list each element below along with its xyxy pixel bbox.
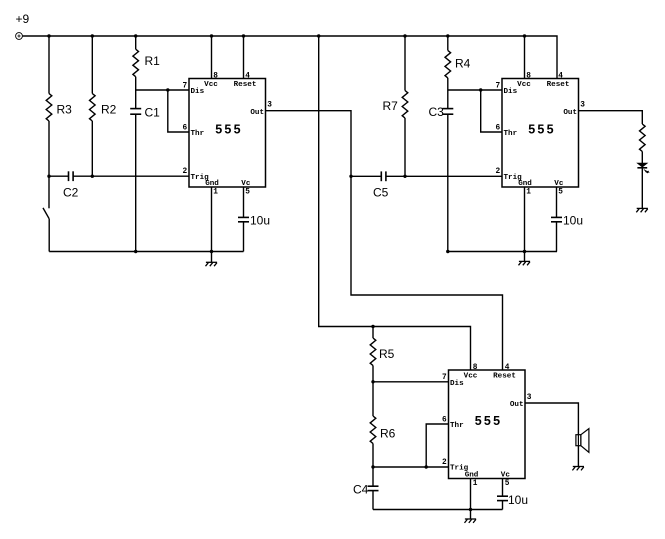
wire Gnd pin1 U3 — [470, 479, 472, 510]
wire ground rail 3 — [373, 509, 503, 511]
555 U3 pin 5 Vc label — [501, 472, 511, 489]
svg-text:8: 8 — [526, 73, 531, 81]
junction R3/C2 — [47, 175, 50, 178]
switch blade — [43, 208, 49, 219]
resistor R7 — [402, 36, 408, 176]
capacitor 10u U3 — [497, 496, 508, 509]
555 U1 pin 6 Thr label — [183, 124, 205, 138]
+9 supply label — [16, 12, 30, 26]
wire Reset pin4 U1 — [243, 36, 245, 79]
svg-text:Out: Out — [250, 109, 264, 117]
svg-text:C4: C4 — [353, 483, 369, 497]
555 U1 pin 2 Trig label — [183, 168, 210, 182]
capacitor C1 — [130, 90, 141, 252]
capacitor 10u U2 — [551, 217, 562, 251]
svg-text:Vcc: Vcc — [204, 81, 218, 89]
wire Trig U1 right — [73, 175, 189, 177]
svg-text:Reset: Reset — [234, 81, 257, 89]
svg-text:4: 4 — [505, 364, 510, 372]
label R6 — [380, 427, 396, 441]
wire Thr U2 jog — [481, 90, 502, 132]
svg-text:Gnd: Gnd — [465, 472, 479, 480]
capacitor C3 — [442, 90, 453, 252]
wire Dis U3 — [373, 381, 449, 383]
svg-text:4: 4 — [245, 73, 250, 81]
label R2 — [101, 103, 117, 117]
555 U1 pin 7 Dis label — [183, 82, 205, 96]
label R1 — [145, 54, 161, 68]
svg-text:Dis: Dis — [504, 88, 518, 96]
label C2 — [63, 186, 79, 200]
svg-text:R2: R2 — [101, 103, 117, 117]
resistor LED series — [640, 124, 646, 163]
wire rail to U3 Vcc — [319, 36, 471, 370]
switch lower wire — [48, 219, 50, 252]
label R7 — [383, 99, 399, 113]
555 U1 pin 4 Reset label — [234, 73, 257, 90]
svg-text:10u: 10u — [508, 493, 528, 507]
555 U2 555 part name — [528, 123, 555, 137]
555 U3 pin 7 Dis label — [442, 374, 464, 388]
junction rail/pin4 U1 — [242, 34, 245, 37]
svg-text:5: 5 — [245, 189, 250, 197]
555 U2 pin 3 Out label — [563, 102, 585, 117]
svg-text:1: 1 — [526, 189, 531, 197]
wire Trig U2 right — [386, 175, 502, 177]
wire ground rail 1 — [49, 251, 243, 253]
svg-text:Dis: Dis — [191, 88, 205, 96]
resistor R2 — [90, 36, 96, 176]
svg-text:Vcc: Vcc — [464, 373, 478, 381]
junction Thr jog U3 — [425, 465, 428, 468]
junction rail/U3 feed — [317, 34, 320, 37]
junction Gnd U2/rail2 — [523, 250, 526, 253]
svg-text:Reset: Reset — [547, 81, 570, 89]
junction R5/R6/Dis U3 — [371, 380, 374, 383]
junction rail/pin8 U2 — [523, 34, 526, 37]
junction rail/R2 — [91, 34, 94, 37]
junction rail/R1 — [134, 34, 137, 37]
junction C3/rail2 — [446, 250, 449, 253]
wire ground rail 2 — [448, 251, 557, 253]
svg-text:6: 6 — [442, 416, 447, 424]
svg-text:Dis: Dis — [450, 380, 464, 388]
svg-text:Reset: Reset — [493, 373, 516, 381]
svg-text:2: 2 — [183, 168, 188, 176]
junction OutU1/C5 — [349, 175, 352, 178]
svg-text:1: 1 — [213, 189, 218, 197]
svg-text:3: 3 — [267, 102, 272, 110]
wire Dis U2 — [448, 89, 502, 91]
555 U3 pin 6 Thr label — [442, 416, 464, 430]
svg-text:6: 6 — [496, 124, 501, 132]
svg-text:10u: 10u — [563, 214, 583, 228]
555 U1 pin 1 Gnd label — [205, 180, 219, 197]
junction R7/Trig U2 — [403, 175, 406, 178]
svg-text:C1: C1 — [145, 106, 161, 120]
svg-text:R5: R5 — [379, 347, 395, 361]
555 U2 pin 1 Gnd label — [518, 180, 532, 197]
wire Out U3 — [525, 403, 578, 435]
svg-text:C3: C3 — [429, 105, 445, 119]
label R5 — [379, 347, 395, 361]
svg-text:Out: Out — [510, 401, 524, 409]
svg-text:Out: Out — [563, 109, 577, 117]
ground symbol LED — [636, 208, 648, 212]
555 U2 pin 7 Dis label — [496, 82, 518, 96]
speaker LS1 — [576, 429, 589, 453]
label 10u U1 — [250, 214, 270, 228]
svg-text:8: 8 — [473, 364, 478, 372]
svg-text:2: 2 — [442, 459, 447, 467]
wire Thr U3 jog — [426, 424, 448, 467]
svg-text:Thr: Thr — [504, 130, 518, 138]
junction rail/R4 — [446, 34, 449, 37]
svg-text:Vc: Vc — [501, 472, 511, 480]
wire Trig U1 left — [49, 175, 69, 177]
555 U3 pin 3 Out label — [510, 394, 532, 409]
junction Gnd U1/rail1 — [210, 250, 213, 253]
svg-text:6: 6 — [183, 124, 188, 132]
wire Trig U2 left — [351, 175, 381, 177]
555 U2 pin 4 Reset label — [547, 73, 570, 90]
555 U2 pin 2 Trig label — [496, 168, 523, 182]
junction R5 top — [371, 325, 374, 328]
resistor R6 — [370, 382, 376, 467]
capacitor C4 — [368, 467, 379, 510]
resistor R4 — [445, 36, 451, 90]
svg-text:R4: R4 — [455, 57, 471, 71]
wire +9 rail — [23, 36, 557, 79]
ground symbol 2 — [519, 252, 531, 266]
wire Vc pin5 U1 — [243, 187, 245, 217]
resistor R1 — [133, 36, 139, 90]
junction rail/R3 — [47, 34, 50, 37]
supply terminal — [16, 33, 23, 40]
svg-text:Thr: Thr — [450, 422, 464, 430]
capacitor C2 — [69, 171, 74, 181]
wire Thr U1 jog — [168, 90, 189, 132]
label R3 — [57, 103, 73, 117]
junction Dis U2 jog — [479, 88, 482, 91]
svg-text:555: 555 — [215, 123, 242, 137]
555 U2 pin 6 Thr label — [496, 124, 518, 138]
svg-text:R7: R7 — [383, 99, 399, 113]
555 U1 box — [189, 79, 266, 188]
555 U3 555 part name — [475, 414, 502, 428]
LED D1 — [637, 163, 649, 173]
svg-text:C5: C5 — [373, 186, 389, 200]
ground symbol speaker — [572, 467, 584, 471]
wire Out U2 — [579, 111, 643, 124]
label C1 — [145, 106, 161, 120]
svg-text:Vc: Vc — [554, 180, 564, 188]
555 U3 pin 2 Trig label — [442, 459, 469, 473]
svg-text:7: 7 — [496, 82, 501, 90]
555 U3 pin 8 Vcc label — [464, 364, 478, 381]
svg-text:2: 2 — [496, 168, 501, 176]
label 10u U2 — [563, 214, 583, 228]
label R4 — [455, 57, 471, 71]
svg-text:1: 1 — [473, 480, 478, 488]
555 U1 pin 3 Out label — [250, 102, 272, 117]
svg-text:8: 8 — [213, 73, 218, 81]
svg-text:5: 5 — [558, 189, 563, 197]
555 U3 pin 4 Reset label — [493, 364, 516, 381]
resistor R3 — [46, 36, 52, 176]
555 U2 pin 8 Vcc label — [517, 73, 531, 90]
555 U2 box — [502, 79, 579, 188]
junction Gnd U3/rail3 — [469, 508, 472, 511]
svg-text:+9: +9 — [16, 12, 30, 26]
capacitor C5 — [381, 171, 386, 181]
label C5 — [373, 186, 389, 200]
capacitor 10u U1 — [238, 217, 249, 251]
svg-text:3: 3 — [527, 394, 532, 402]
ground symbol 1 — [206, 252, 218, 267]
svg-text:C2: C2 — [63, 186, 79, 200]
svg-text:4: 4 — [558, 73, 563, 81]
wire Vcc pin8 U2 — [524, 36, 526, 79]
svg-text:Vc: Vc — [241, 180, 251, 188]
junction Dis U1 jog — [166, 88, 169, 91]
555 U2 pin 5 Vc label — [554, 180, 564, 197]
ground symbol 3 — [465, 510, 477, 523]
label C3 — [429, 105, 445, 119]
switch upper wire — [48, 176, 50, 208]
svg-text:5: 5 — [505, 480, 510, 488]
wire Trig U3 — [373, 466, 449, 468]
junction C1/rail1 — [134, 250, 137, 253]
555 U1 pin 8 Vcc label — [204, 73, 218, 90]
svg-text:Vcc: Vcc — [517, 81, 531, 89]
label C4 — [353, 483, 369, 497]
555 U3 pin 1 Gnd label — [465, 472, 479, 489]
svg-text:R1: R1 — [145, 54, 161, 68]
junction R2/Trig — [91, 175, 94, 178]
wire Gnd pin1 U1 — [211, 187, 213, 252]
label 10u U3 — [508, 493, 528, 507]
svg-text:7: 7 — [442, 374, 447, 382]
wire Vcc pin8 U1 — [211, 36, 213, 79]
resistor R5 — [370, 327, 376, 382]
junction rail/R7 — [403, 34, 406, 37]
svg-text:R6: R6 — [380, 427, 396, 441]
555 U1 pin 5 Vc label — [241, 180, 251, 197]
wire Gnd pin1 U2 — [524, 187, 526, 252]
svg-text:3: 3 — [580, 102, 585, 110]
junction rail/pin8 U1 — [210, 34, 213, 37]
wire Dis U1 — [136, 89, 189, 91]
svg-text:7: 7 — [183, 82, 188, 90]
wire Out U1 — [266, 111, 503, 370]
svg-text:Gnd: Gnd — [205, 180, 219, 188]
svg-text:555: 555 — [528, 123, 555, 137]
wire LED cathode — [641, 168, 643, 209]
wire Vc pin5 U2 — [556, 187, 558, 217]
555 U1 555 part name — [215, 123, 242, 137]
svg-text:555: 555 — [475, 414, 502, 428]
svg-text:R3: R3 — [57, 103, 73, 117]
wire speaker to ground — [577, 446, 579, 467]
555 U3 box — [449, 370, 526, 479]
junction R6/C4/Trig U3 — [371, 465, 374, 468]
wire Vc pin5 U3 — [502, 479, 504, 497]
svg-text:10u: 10u — [250, 214, 270, 228]
svg-text:Thr: Thr — [191, 130, 205, 138]
svg-text:Gnd: Gnd — [518, 180, 532, 188]
